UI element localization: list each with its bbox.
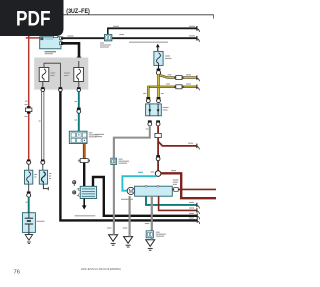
label on teal: [75, 102, 78, 121]
wire: dark red drop from component box: [157, 126, 159, 171]
splice circle connector: [151, 171, 161, 177]
fuel pump motor M: [127, 187, 134, 195]
junction connector on gray: [111, 158, 117, 164]
wire: black hook from resistor to right run: [93, 177, 200, 219]
note text under bus: [129, 41, 168, 43]
wire: red feed from battery to ignition switch, horizontal under badge: [26, 37, 41, 39]
label to circuit opening relay: [75, 215, 96, 217]
label fuse left: [50, 73, 55, 76]
wire: riser from J8 to upper bus: [107, 28, 109, 35]
component box (opening relay): [146, 104, 162, 116]
wire: gray pump ground 3: [151, 196, 153, 240]
junction connector J8: [105, 34, 112, 40]
label 1L yellow right: [161, 93, 164, 95]
wire overdraw: gray ground 3: [151, 196, 153, 240]
fuel pump resistor (striped box): [79, 186, 97, 198]
ground battery: [25, 232, 32, 243]
fuel pump sender box: [135, 186, 173, 197]
inline connector on orange: [79, 159, 89, 163]
wire: thick dark red loop to right edge: [161, 173, 216, 198]
label 4-1B upper bus right: [189, 25, 195, 27]
inline connector on yellow 2: [175, 85, 183, 89]
wire: yellow branch 1 diagonal to right: [159, 75, 200, 81]
label battery: [37, 220, 45, 222]
page number 76: [14, 269, 20, 275]
wire: gray pump ground 2: [129, 196, 131, 236]
junction connector redraw on gray 1: [111, 158, 117, 164]
header rule: [64, 15, 214, 19]
connector pair below box left: [148, 120, 152, 126]
connector on red wire: [25, 105, 32, 117]
svg-text:2002 LEXUS GS 430 (02-06 EWD46: 2002 LEXUS GS 430 (02-06 EWD460U): [81, 267, 121, 271]
junction connector on gray 3: [146, 231, 153, 238]
label on white wire: [39, 120, 41, 122]
junction connector redraw on gray 3: [146, 231, 153, 238]
JB terminal below fuse right: [77, 61, 81, 92]
label FUEL PUMP: [121, 198, 133, 200]
wire: thin bus from ignition switch to right edge: [61, 36, 199, 42]
battery: [22, 213, 35, 233]
wire: gray shield drop to ground: [114, 126, 150, 235]
label grid connector: [89, 133, 99, 137]
wire: white wire from JB: [42, 92, 44, 161]
ground 3: [146, 240, 155, 250]
label on red wire: [25, 100, 28, 102]
footer text: [81, 267, 121, 271]
terminal circle white wire: [41, 160, 45, 171]
junction connector J8 redraw: [105, 34, 112, 40]
wire: upper bus to right edge: [107, 26, 199, 32]
label W-B gray2: [123, 227, 128, 229]
wire: black ground wire from JB: [60, 92, 199, 224]
wire: yellow branch 2 horizontal: [148, 85, 199, 91]
title (3UZ-FE): [66, 8, 90, 15]
svg-text:76: 76: [14, 269, 20, 275]
fuse B output stub: [43, 184, 48, 190]
svg-text:M: M: [129, 189, 133, 195]
wire: teal from JB to relay connector: [78, 92, 80, 132]
wire: yellow vertical below EFI: [157, 75, 159, 97]
JB internal routing wire: [44, 63, 60, 87]
wire: dark red fuel sender output: [172, 188, 216, 192]
label 1K yellow left: [143, 93, 146, 95]
label 4-1B upper bus left: [113, 25, 119, 27]
terminal circle red wire: [27, 160, 31, 171]
label above fuel pump right: [173, 180, 179, 184]
ignition switch box: [40, 35, 63, 49]
inline connector on dark red: [155, 133, 161, 137]
label W-B gray1: [107, 227, 112, 229]
label IGNITION SW: [45, 52, 56, 54]
terminal pair below fuse A: [27, 184, 31, 197]
junction block (gray): [34, 58, 88, 90]
connector pair on dark red: [156, 155, 160, 161]
ground 2: [124, 237, 133, 247]
wire: teal loop to fuel pump: [122, 176, 156, 191]
wire: dark red pump drop: [159, 196, 200, 214]
wire: yellow drop left: [147, 86, 149, 97]
label 2-1B right of J8: [119, 34, 124, 36]
label component box: [163, 108, 169, 111]
wire: dark red branch to right: [158, 141, 199, 149]
PDF badge: [0, 0, 64, 36]
arrow tap to EFI fuse: [156, 44, 160, 52]
labels yellow 1: [168, 74, 192, 76]
wire: red vertical battery feed: [28, 35, 30, 161]
label junction connector gray: [119, 159, 130, 163]
wire: orange from grid to connector: [83, 144, 86, 159]
fuse right in JB: [74, 68, 84, 82]
connector pair on yellow right: [157, 97, 161, 103]
JB terminal below fuse left: [41, 82, 45, 92]
label J8 A/F junction connector: [100, 43, 111, 47]
arrow below resistor: [82, 199, 87, 210]
fuse left in JB: [39, 68, 49, 82]
relay block grid connector: [69, 131, 87, 143]
fuse B (fusible link): [39, 170, 47, 184]
labels yellow 2: [166, 83, 191, 85]
svg-text:(3UZ–FE): (3UZ–FE): [66, 8, 90, 15]
label fuse B: [49, 174, 52, 179]
label fuse right: [64, 73, 70, 76]
label teal loop: [138, 171, 143, 173]
inline connector on yellow 1: [175, 76, 183, 80]
label above dark red loop: [171, 170, 176, 172]
wire: teal battery positive: [26, 197, 29, 213]
label W-B gray3: [145, 223, 150, 225]
label EFI fuse: [165, 56, 172, 59]
label junction connector 3: [156, 232, 166, 236]
label fuse A: [34, 175, 37, 178]
wire: thick black ignition feed to junction block: [61, 43, 81, 61]
label W-B on gray: [95, 129, 148, 137]
wire: teal pump return: [146, 196, 199, 208]
label 2-1T: [68, 35, 74, 37]
label 2-1B lower bus right: [189, 35, 195, 37]
ground 1: [109, 235, 118, 245]
wire: black drop to resistor: [83, 163, 85, 187]
shield terminal symbols: [73, 181, 79, 196]
fuse EFI: [154, 51, 163, 65]
connector pair on teal: [77, 108, 81, 114]
JB terminal centre: [59, 87, 63, 91]
connector pair below box right: [156, 120, 160, 126]
fuse A (AM2): [25, 170, 33, 184]
svg-text:PDF: PDF: [16, 8, 51, 31]
wire overdraw: gray shield to ground 1: [113, 138, 115, 235]
wire overdraw: gray ground 2: [129, 196, 131, 236]
connector pair on yellow left: [146, 97, 150, 103]
connector below EFI fuse: [156, 65, 160, 74]
